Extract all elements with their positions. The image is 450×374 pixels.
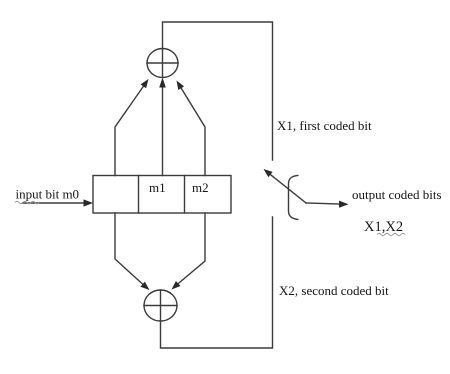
output arrow (coded bits out) (306, 201, 349, 208)
input arrow into register (23, 199, 94, 206)
switch bracket (289, 175, 298, 219)
svg-text:m1: m1 (149, 180, 166, 195)
wire: cell 1 tap to bottom XOR (with arrowhead) (115, 213, 150, 290)
svg-text:m2: m2 (192, 180, 209, 195)
wire: bottom XOR output X2 to switch bottom contact (161, 217, 273, 348)
wire: cell m1 tap to top XOR (with arrowhead) (159, 78, 166, 176)
svg-text:X2, second coded bit: X2, second coded bit (279, 283, 389, 298)
wire: cell 1 tap to top XOR (with arrowhead) (115, 79, 149, 176)
register cell divider 2 (184, 176, 186, 214)
shift register box (93, 176, 231, 214)
svg-text:X1, first coded bit: X1, first coded bit (277, 118, 372, 133)
XOR adder (bottom, X2) (144, 290, 177, 321)
wire: cell m2 tap to top XOR (with arrowhead) (177, 81, 206, 176)
XOR adder (top, X1) (147, 49, 178, 78)
spellcheck squiggle under "input" (15, 201, 39, 204)
wire: cell m2 tap to bottom XOR (with arrowhead) (172, 213, 206, 290)
register cell divider 1 (138, 176, 140, 214)
svg-text:input bit m0: input bit m0 (16, 187, 80, 202)
wire: top XOR output X1 to switch top contact (163, 22, 273, 160)
spellcheck squiggle under ",X2" (377, 233, 405, 236)
switch wiper arm (arrow toward X1 contact) (264, 169, 307, 203)
svg-text:output coded bits: output coded bits (352, 187, 442, 202)
svg-text:X1,X2: X1,X2 (364, 219, 403, 235)
